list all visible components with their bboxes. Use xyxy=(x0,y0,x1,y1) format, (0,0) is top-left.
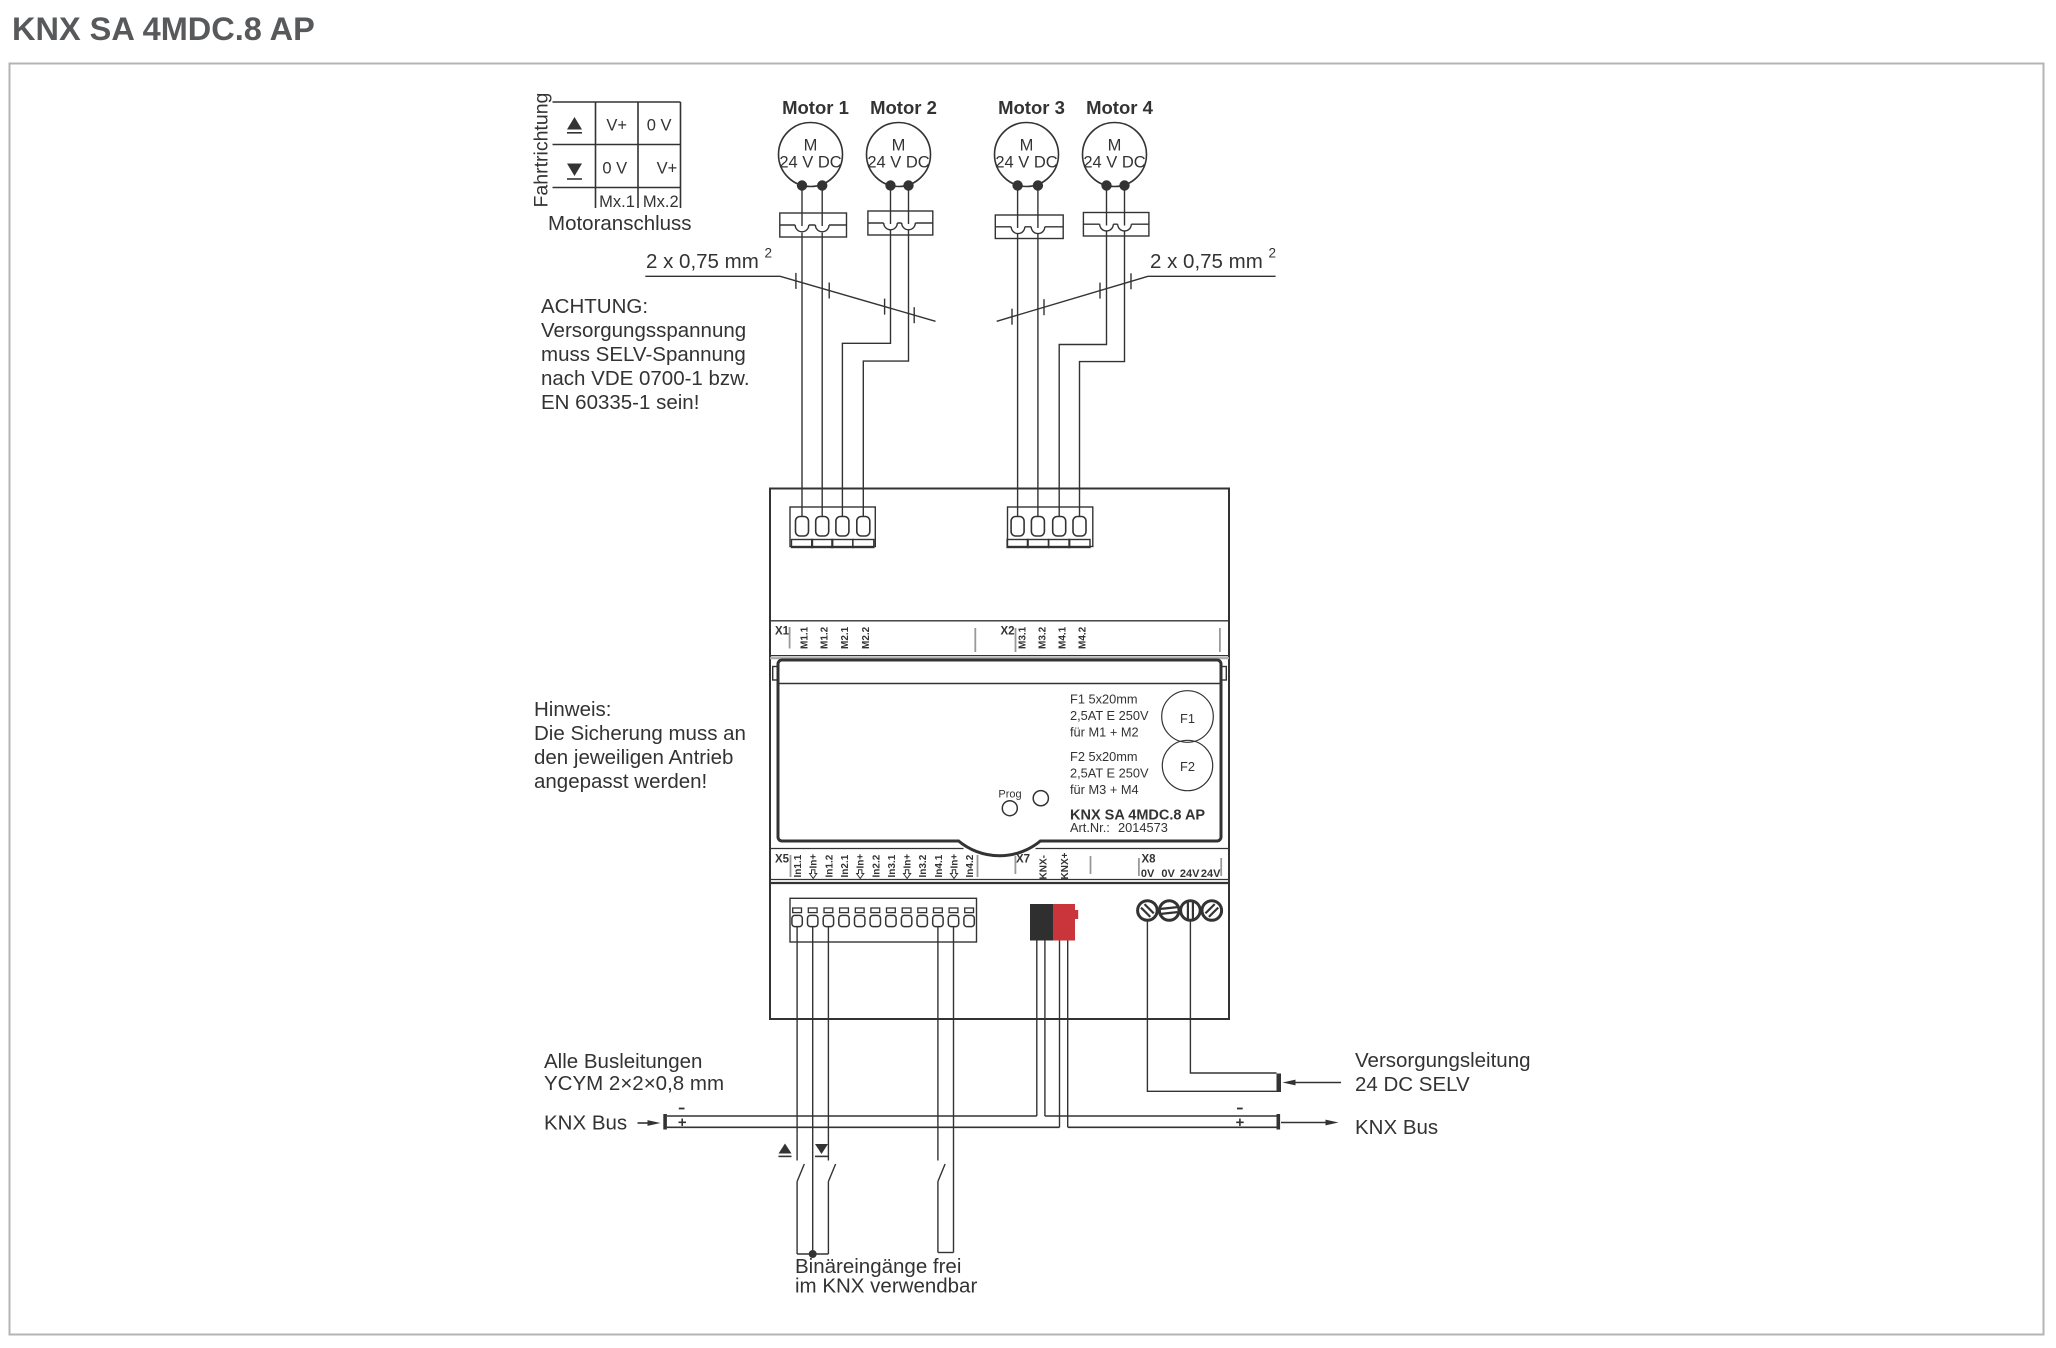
connector block X1 (M1/M2 outputs) xyxy=(790,507,875,548)
caption Motoranschluss xyxy=(548,212,692,235)
svg-text:0 V: 0 V xyxy=(602,160,627,178)
svg-text:In3.2: In3.2 xyxy=(918,854,929,877)
svg-text:Mx.1: Mx.1 xyxy=(599,193,635,211)
wire KNX+ to right bus xyxy=(1067,941,1069,1128)
wire link switch group 2 xyxy=(938,1252,954,1254)
pin label M1.2 xyxy=(820,626,831,649)
wire M3.2 motor3 to X2 xyxy=(1037,191,1039,518)
device enclosure KNX SA 4MDC.8 AP xyxy=(770,489,1229,1020)
title KNX SA 4MDC.8 AP xyxy=(12,11,315,47)
pin label M4.1 xyxy=(1058,626,1069,649)
cable clamp (Lüsterklemme) for motor M2 xyxy=(868,211,933,235)
fuse F1 xyxy=(1162,691,1214,743)
svg-text:In+: In+ xyxy=(903,854,914,869)
svg-text:KNX+: KNX+ xyxy=(1060,852,1071,879)
wire KNX- to left bus xyxy=(1036,941,1038,1117)
svg-text:2,5AT E 250V: 2,5AT E 250V xyxy=(1070,766,1149,781)
svg-text:In2.1: In2.1 xyxy=(840,854,851,877)
label KNX Bus (left) xyxy=(544,1112,627,1135)
Prog button xyxy=(998,789,1021,816)
KNX bus cable (right) xyxy=(1045,1109,1280,1130)
pin label In2.1 xyxy=(840,854,851,877)
svg-text:KNX Bus: KNX Bus xyxy=(544,1112,627,1135)
X5/X7/X8 label strip xyxy=(770,849,1229,884)
pin label In3.2 xyxy=(918,854,929,877)
svg-text:M1.1: M1.1 xyxy=(800,626,811,649)
pin labels 0V 0V 24V 24V xyxy=(1141,868,1221,880)
note ACHTUNG (SELV warning) xyxy=(541,295,750,414)
wire M4.2 motor4 to X2 (jog) xyxy=(1080,191,1125,518)
cable clamp (Lüsterklemme) for motor M1 xyxy=(780,213,847,237)
table value V+ (up, Mx.1) xyxy=(606,117,627,135)
svg-text:Hinweis:: Hinweis: xyxy=(534,698,611,721)
cable clamp (Lüsterklemme) for motor M4 xyxy=(1083,213,1149,237)
pin label In3.1 xyxy=(887,854,898,877)
note Binäreingänge xyxy=(795,1255,977,1298)
svg-text:M: M xyxy=(804,137,818,155)
svg-text:2014573: 2014573 xyxy=(1118,820,1168,835)
svg-text:Motor 4: Motor 4 xyxy=(1086,97,1154,118)
svg-text:Versorgungsspannung: Versorgungsspannung xyxy=(541,319,746,342)
pin label In+ with arrow xyxy=(809,854,820,879)
terminal designator X2 xyxy=(1001,626,1015,638)
svg-text:den jeweiligen Antrieb: den jeweiligen Antrieb xyxy=(534,746,733,769)
note Versorgungsleitung 24 DC SELV xyxy=(1355,1049,1531,1096)
svg-text:24V: 24V xyxy=(1201,868,1221,880)
arrow into left KNX bus xyxy=(638,1120,661,1126)
svg-text:2 x 0,75 mm: 2 x 0,75 mm xyxy=(1150,250,1263,273)
motor M4 (24 V DC) xyxy=(1083,97,1154,187)
wire 24V to supply cable xyxy=(1190,920,1276,1073)
svg-text:24 V DC: 24 V DC xyxy=(867,154,929,172)
arrow out of right KNX bus xyxy=(1281,1120,1339,1126)
connector X8 screw terminals (0V 0V 24V 24V) xyxy=(1138,901,1222,921)
svg-text:für M1 + M2: für M1 + M2 xyxy=(1070,725,1139,740)
terminal designator X7 xyxy=(1016,854,1030,866)
product label Art.Nr.: 2014573 xyxy=(1070,820,1168,835)
motor M2 (24 V DC) xyxy=(867,97,937,187)
product label KNX SA 4MDC.8 AP xyxy=(1070,808,1205,824)
svg-text:X8: X8 xyxy=(1142,854,1157,866)
svg-text:Prog: Prog xyxy=(998,789,1021,801)
pin label In+ with arrow xyxy=(950,854,961,879)
svg-text:In+: In+ xyxy=(809,854,820,869)
svg-text:M2.2: M2.2 xyxy=(861,626,872,649)
table symbol: up arrow (raise) xyxy=(567,117,582,133)
svg-text:2: 2 xyxy=(765,246,773,261)
pin label M1.1 xyxy=(800,626,811,649)
pin label M2.1 xyxy=(840,626,851,649)
symbol up arrow at In1.1 xyxy=(779,1144,792,1157)
svg-text:X2: X2 xyxy=(1001,626,1015,638)
svg-text:In+: In+ xyxy=(950,854,961,869)
pin label KNX+ xyxy=(1060,852,1071,879)
motor M2 terminal dots xyxy=(885,180,913,190)
wire M1.2 motor1 to X1 xyxy=(821,191,823,518)
svg-text:In4.2: In4.2 xyxy=(965,854,976,877)
svg-text:Art.Nr.:: Art.Nr.: xyxy=(1070,820,1110,835)
svg-text:Motor 3: Motor 3 xyxy=(998,97,1065,118)
svg-text:M4.1: M4.1 xyxy=(1058,626,1069,649)
symbol down arrow at In1.2 xyxy=(815,1144,828,1156)
svg-text:24 V DC: 24 V DC xyxy=(1083,154,1145,172)
svg-text:YCYM 2×2×0,8 mm: YCYM 2×2×0,8 mm xyxy=(544,1072,724,1095)
pin label M3.1 xyxy=(1018,626,1029,649)
svg-text:2,5AT E 250V: 2,5AT E 250V xyxy=(1070,708,1149,723)
pin label M2.2 xyxy=(861,626,872,649)
svg-text:Motor 2: Motor 2 xyxy=(870,97,937,118)
svg-text:Mx.2: Mx.2 xyxy=(643,193,679,211)
svg-text:24 DC SELV: 24 DC SELV xyxy=(1355,1073,1470,1096)
wire In1.2 with switch xyxy=(828,927,835,1254)
svg-text:X1: X1 xyxy=(775,626,790,638)
pin label KNX- xyxy=(1039,855,1050,879)
KNX bus cable (left) xyxy=(663,1109,1059,1130)
wire 0V to supply cable xyxy=(1147,920,1276,1091)
svg-text:0V: 0V xyxy=(1141,868,1155,880)
svg-text:In1.1: In1.1 xyxy=(793,854,804,877)
svg-text:Alle Busleitungen: Alle Busleitungen xyxy=(544,1050,702,1073)
table value 0 V (up, Mx.2) xyxy=(647,117,672,135)
wire KNX- to right bus xyxy=(1044,941,1046,1117)
svg-text:V+: V+ xyxy=(606,117,627,135)
connector block X7 (KNX bus terminal, black/red) xyxy=(1030,904,1078,941)
svg-text:KNX-: KNX- xyxy=(1039,855,1050,879)
svg-text:Motor 1: Motor 1 xyxy=(782,97,849,118)
terminal designator X5 xyxy=(775,854,790,866)
svg-text:M: M xyxy=(892,137,906,155)
table symbol: down arrow (lower) xyxy=(567,164,582,180)
svg-text:In2.2: In2.2 xyxy=(871,854,882,877)
connector block X5 (binary inputs) xyxy=(790,898,977,942)
svg-text:M: M xyxy=(1020,137,1034,155)
svg-text:0V: 0V xyxy=(1161,868,1175,880)
wire In4.1 with switch xyxy=(938,927,945,1253)
svg-text:24 V DC: 24 V DC xyxy=(779,154,841,172)
svg-text:M3.1: M3.1 xyxy=(1018,626,1029,649)
pin label In1.2 xyxy=(824,854,835,877)
wire In+ (common, group 2) xyxy=(953,927,955,1253)
motor M3 terminal dots xyxy=(1012,180,1043,190)
svg-text:0 V: 0 V xyxy=(647,117,672,135)
cable marker 2 x 0,75 mm2 (motors 1+2) xyxy=(645,246,935,324)
Fahrtrichtung / Motoranschluss table xyxy=(531,93,681,208)
svg-text:KNX Bus: KNX Bus xyxy=(1355,1116,1438,1139)
svg-text:EN 60335-1 sein!: EN 60335-1 sein! xyxy=(541,391,699,414)
pin label In2.2 xyxy=(871,854,882,877)
svg-text:M3.2: M3.2 xyxy=(1038,626,1049,649)
svg-text:Versorgungsleitung: Versorgungsleitung xyxy=(1355,1049,1531,1072)
wire In+ (common) with junction xyxy=(809,927,817,1258)
svg-text:F1 5x20mm: F1 5x20mm xyxy=(1070,692,1138,707)
svg-text:X5: X5 xyxy=(775,854,790,866)
svg-text:Motoranschluss: Motoranschluss xyxy=(548,212,692,235)
svg-text:M: M xyxy=(1108,137,1122,155)
svg-text:muss SELV-Spannung: muss SELV-Spannung xyxy=(541,343,746,366)
cable marker 2 x 0,75 mm2 (motors 3+4) xyxy=(997,246,1276,325)
wire M4.1 motor4 to X2 (jog) xyxy=(1059,191,1106,518)
svg-text:X7: X7 xyxy=(1016,854,1030,866)
wire KNX+ to left bus xyxy=(1059,941,1061,1128)
X1/X2 label strip xyxy=(770,621,1229,658)
svg-text:M1.2: M1.2 xyxy=(820,626,831,649)
pin label M4.2 xyxy=(1078,626,1089,649)
wire M2.1 motor2 to X1 (jog) xyxy=(842,191,890,518)
svg-text:24V: 24V xyxy=(1180,868,1200,880)
fuse F2 xyxy=(1162,740,1212,790)
wire M3.1 motor3 to X2 xyxy=(1017,191,1019,518)
terminal designator X8 xyxy=(1142,854,1157,866)
motor M1 (24 V DC) xyxy=(779,97,849,187)
svg-text:V+: V+ xyxy=(657,160,678,178)
pin label In4.1 xyxy=(934,854,945,877)
arrow into supply cable xyxy=(1283,1080,1342,1086)
supply cable end cap (Versorgungsleitung) xyxy=(1277,1074,1282,1093)
svg-text:M4.2: M4.2 xyxy=(1078,626,1089,649)
svg-text:ACHTUNG:: ACHTUNG: xyxy=(541,295,648,318)
fuse F2 value label xyxy=(1070,749,1149,797)
wire link switch group 1 xyxy=(797,1253,828,1255)
terminal designator X1 xyxy=(775,626,790,638)
table column label Mx.2 xyxy=(643,193,679,211)
svg-text:F2 5x20mm: F2 5x20mm xyxy=(1070,749,1138,764)
svg-text:In1.2: In1.2 xyxy=(824,854,835,877)
svg-text:2: 2 xyxy=(1269,246,1277,261)
motor M4 terminal dots xyxy=(1101,180,1129,190)
svg-text:F1: F1 xyxy=(1180,711,1195,726)
motor M3 (24 V DC) xyxy=(995,97,1065,187)
svg-text:F2: F2 xyxy=(1180,759,1195,774)
motor M1 terminal dots xyxy=(797,180,828,190)
Prog LED xyxy=(1033,791,1048,806)
pin label In4.2 xyxy=(965,854,976,877)
pin label M3.2 xyxy=(1038,626,1049,649)
svg-text:M2.1: M2.1 xyxy=(840,626,851,649)
label KNX Bus (right) xyxy=(1355,1116,1438,1139)
wire In1.1 with switch xyxy=(797,927,804,1254)
device front panel xyxy=(773,660,1227,856)
cable clamp (Lüsterklemme) for motor M3 xyxy=(995,215,1063,239)
svg-text:angepasst werden!: angepasst werden! xyxy=(534,770,707,793)
svg-text:In3.1: In3.1 xyxy=(887,854,898,877)
table column label Mx.1 xyxy=(599,193,635,211)
wire M1.1 motor1 to X1 xyxy=(801,191,803,518)
table value 0 V (down, Mx.1) xyxy=(602,160,627,178)
note Alle Busleitungen YCYM xyxy=(544,1050,724,1095)
svg-text:nach VDE 0700-1 bzw.: nach VDE 0700-1 bzw. xyxy=(541,367,750,390)
fuse F1 value label xyxy=(1070,692,1149,740)
svg-text:für M3 + M4: für M3 + M4 xyxy=(1070,782,1139,797)
svg-text:KNX SA 4MDC.8 AP: KNX SA 4MDC.8 AP xyxy=(12,11,315,47)
svg-text:24 V DC: 24 V DC xyxy=(995,154,1057,172)
svg-text:im KNX verwendbar: im KNX verwendbar xyxy=(795,1275,977,1298)
svg-text:2 x 0,75 mm: 2 x 0,75 mm xyxy=(646,250,759,273)
wire M2.2 motor2 to X1 (jog) xyxy=(863,191,908,518)
connector block X2 (M3/M4 outputs) xyxy=(1007,507,1093,548)
note Hinweis (fuse adaptation) xyxy=(534,698,746,793)
svg-text:In+: In+ xyxy=(856,854,867,869)
pin label In1.1 xyxy=(793,854,804,877)
svg-text:Die Sicherung muss an: Die Sicherung muss an xyxy=(534,722,746,745)
svg-text:In4.1: In4.1 xyxy=(934,854,945,877)
pin label In+ with arrow xyxy=(856,854,867,879)
table value V+ (down, Mx.2) xyxy=(657,160,678,178)
pin label In+ with arrow xyxy=(903,854,914,879)
svg-text:Fahrtrichtung: Fahrtrichtung xyxy=(531,93,553,208)
